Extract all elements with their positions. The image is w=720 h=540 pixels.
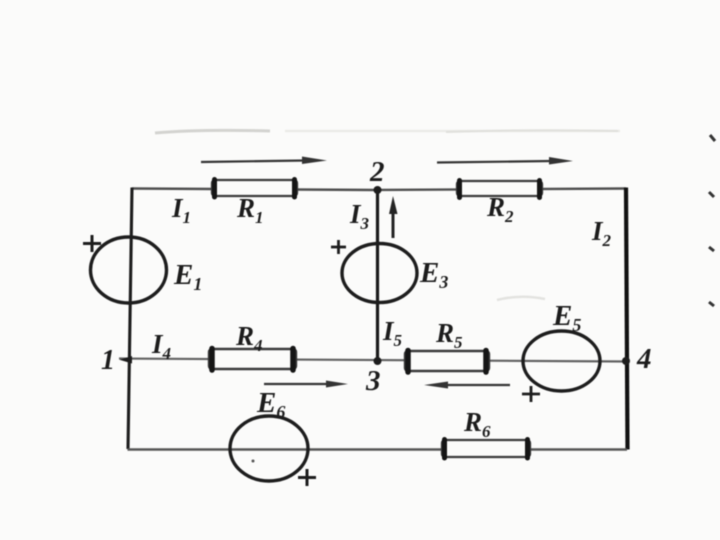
current arrow I1	[201, 157, 327, 165]
resistor R2	[457, 181, 542, 198]
scan speck right edge 4	[709, 302, 714, 306]
current arrow I5 direction	[424, 382, 510, 389]
polarity plus E1	[83, 235, 101, 252]
resistor R4	[209, 349, 296, 371]
wire left vertical branch	[128, 188, 132, 450]
resistor R1	[212, 180, 297, 198]
scan speck right edge 2	[709, 192, 714, 197]
node 3	[374, 357, 382, 365]
faint scan streak right of center	[446, 130, 618, 132]
speck inside E6	[252, 460, 255, 463]
faint scan streak top-left	[155, 130, 270, 133]
source E6	[230, 416, 308, 481]
svg-text:2: 2	[369, 156, 385, 188]
node 2	[374, 186, 382, 194]
node 1	[120, 356, 133, 364]
wire top-left segment node1-corner to node 2	[132, 189, 377, 191]
polarity plus E3	[331, 240, 346, 254]
svg-text:4: 4	[636, 343, 652, 375]
svg-text:1: 1	[101, 345, 115, 376]
faint scan streak across top	[285, 130, 620, 133]
wire bottom branch	[128, 448, 628, 450]
resistor R6	[442, 440, 530, 459]
current arrow I3	[389, 196, 398, 238]
source E1	[91, 237, 167, 303]
scan speck right edge 1	[710, 135, 715, 141]
current arrow I2	[437, 157, 573, 165]
faint scan blotch near E3 right	[497, 297, 545, 300]
scan speck right edge 3	[709, 247, 714, 251]
polarity plus E6	[298, 469, 316, 486]
polarity plus E5	[522, 386, 540, 402]
wire top-right segment node 2 to top-right corner	[377, 189, 626, 191]
node 4	[622, 357, 630, 365]
source E5	[523, 331, 600, 391]
source E3	[342, 244, 417, 303]
resistor R5	[405, 351, 489, 373]
svg-text:3: 3	[365, 365, 381, 397]
current arrow E6 direction	[264, 381, 348, 388]
wire right vertical branch	[626, 188, 628, 450]
wire E3 branch node2 to node3	[376, 190, 379, 362]
wire middle branch node1 to node4	[119, 359, 627, 362]
